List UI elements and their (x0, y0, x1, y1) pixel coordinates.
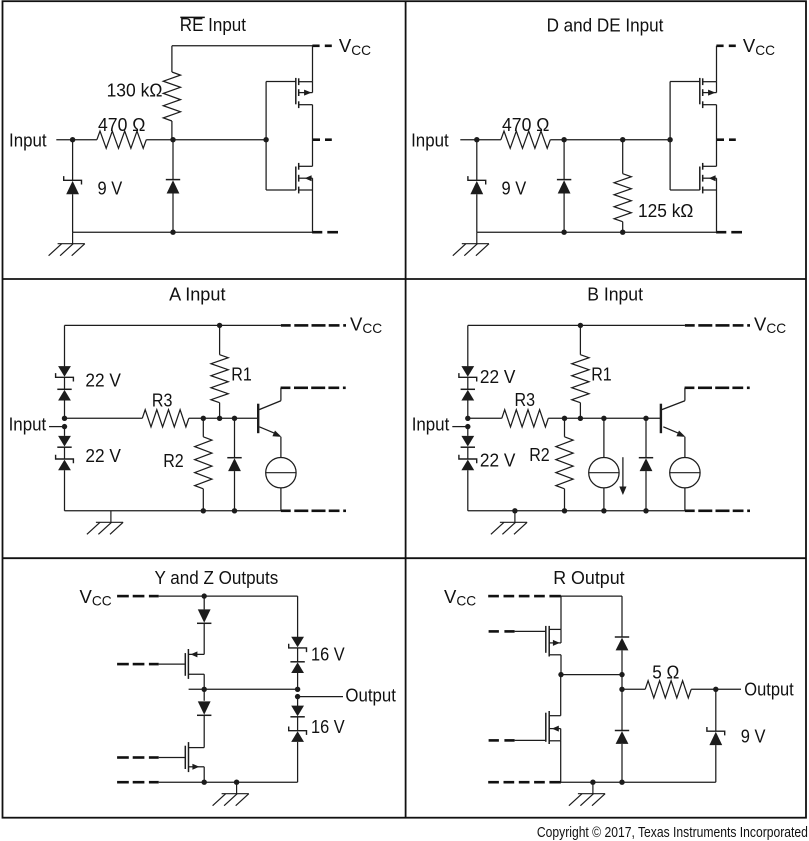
svg-text:22 V: 22 V (480, 451, 516, 471)
svg-text:R1: R1 (231, 365, 252, 385)
pmos drain to output node (panel 2) (716, 105, 718, 140)
current direction arrow (panel 4) (622, 457, 624, 487)
collector wire (panel 4) (662, 401, 685, 410)
node above clamp diode (panel 2) (561, 137, 566, 142)
VCC rail (panel 4) (468, 324, 685, 326)
current source I1 (panel 3) (266, 458, 296, 488)
input tap wire (panel 4) (452, 426, 468, 428)
resistor 5 Ohm (622, 688, 645, 690)
bottom rail (panel 6) (488, 781, 499, 784)
resistor 125 kOhm (622, 140, 624, 174)
bottom rail (panel 4) (468, 510, 685, 512)
output wire (panel 6) (716, 688, 741, 690)
emitter wire with arrow (panel 4) (663, 427, 680, 434)
collector dash rail (panel 4) (685, 386, 695, 389)
resistor R1 (panel 4) (579, 325, 581, 354)
left branch wire from VCC rail (panel 4) (467, 325, 469, 366)
wire 470-ohm output to node (146, 139, 173, 141)
VCC rail (panel 3) (65, 324, 281, 326)
emitter wire with arrow (panel 3) (259, 427, 276, 434)
collector dash rail (panel 3) (281, 386, 291, 389)
npn transistor Q (panel 4) (660, 404, 662, 434)
svg-text:125 kΩ: 125 kΩ (638, 201, 693, 221)
resistor 470 Ohm (panel 1) (97, 131, 146, 148)
upper mosfet M1 (panel 5) (184, 653, 186, 676)
svg-text:Input: Input (9, 131, 47, 151)
gate line M2 (panel 5) (117, 756, 129, 759)
svg-text:Y and Z Outputs: Y and Z Outputs (155, 568, 279, 588)
right column wire from VCC rail (panel 5) (297, 596, 299, 637)
diode D1 top (panel 5) (203, 596, 205, 609)
svg-text:RE Input: RE Input (180, 15, 246, 35)
svg-text:R2: R2 (529, 445, 550, 465)
upper 22 V zener pair (panel 3) (58, 366, 71, 377)
input wire (panel 2) (460, 139, 501, 141)
clamp diode (panel 4) (645, 418, 647, 457)
bottom rail (panel 1) (73, 231, 313, 233)
input node dots (panel 4) (465, 416, 470, 421)
M1 source to output node (panel 5) (203, 674, 205, 689)
output label tap (panel 5) (295, 694, 300, 699)
bottom rail (panel 5) (117, 781, 129, 784)
ground (panel 6) (569, 782, 605, 806)
lower 16 V zener pair (297, 697, 299, 707)
svg-text:22 V: 22 V (85, 370, 121, 390)
svg-text:Output: Output (744, 680, 793, 700)
svg-text:22 V: 22 V (85, 446, 121, 466)
resistor R2 (panel 3) (202, 418, 204, 437)
upper 22 V zener pair (panel 4) (461, 366, 474, 377)
zener diode 9 V (panel 6) (715, 689, 717, 731)
nmos source to bottom rail (312, 190, 314, 232)
wire to gate riser with taps (panel 2) (550, 139, 670, 141)
ground (panel 5) (213, 782, 249, 806)
svg-text:B Input: B Input (587, 285, 643, 305)
bottom rail (panel 2) (477, 231, 717, 233)
svg-text:5 Ω: 5 Ω (652, 662, 679, 682)
clamp diode (panel 3) (234, 418, 236, 457)
diode D4 (panel 6) (621, 689, 623, 730)
nmos drain from output node (panel 2) (716, 140, 718, 167)
svg-text:D and DE Input: D and DE Input (547, 15, 664, 35)
gate riser wire (panel 2) (669, 82, 671, 191)
ground (panel 2) (453, 232, 489, 256)
current source I2 (panel 4) (670, 458, 700, 488)
input node dots (panel 3) (62, 416, 67, 421)
resistor R3 (panel 3) (142, 410, 189, 427)
ground (panel 3) (87, 511, 123, 535)
column to 5-ohm node (panel 6) (621, 675, 623, 690)
VCC rail (panel 6) (488, 595, 499, 598)
ground (panel 1) (49, 232, 85, 256)
M3 drain to mid node (panel 6) (560, 655, 562, 675)
resistor R3 (panel 4) (502, 410, 549, 427)
svg-text:470 Ω: 470 Ω (98, 115, 145, 135)
svg-text:R3: R3 (152, 390, 173, 410)
svg-text:16 V: 16 V (311, 717, 345, 737)
svg-text:Output: Output (345, 686, 396, 706)
mid node wire (panel 6) (561, 674, 622, 676)
upper mosfet M3 (panel 6) (545, 626, 547, 653)
VCC rail (panel 1) (172, 45, 313, 47)
collector wire (panel 3) (259, 401, 281, 410)
zener diode 9 V (panel 2) (476, 140, 478, 181)
wire input to R3 (panel 3) (65, 417, 143, 419)
output junction line (panel 5) (189, 688, 298, 690)
pmos source rail from VCC (312, 46, 314, 82)
svg-text:Input: Input (9, 415, 47, 435)
pmos source rail from VCC (panel 2) (716, 46, 718, 82)
svg-text:9 V: 9 V (741, 726, 766, 746)
zener diode 9 V (panel 1) (72, 140, 74, 181)
npn transistor Q (panel 3) (257, 404, 259, 434)
diode D2 (panel 5) (203, 689, 205, 701)
lower 22 V zener pair (panel 4) (467, 427, 469, 436)
bottom rail (panel 3) (65, 510, 281, 512)
output node dashes (panel 2) (716, 138, 724, 141)
upper 16 V zener pair (291, 637, 304, 648)
clamp diode (panel 2) (563, 140, 565, 180)
svg-text:16 V: 16 V (311, 644, 345, 664)
M2 source to bottom rail (panel 5) (203, 767, 205, 782)
resistor 470 Ohm (panel 2) (501, 131, 550, 148)
pmos drain to output node (312, 105, 314, 140)
VCC rail (panel 5) (117, 595, 129, 598)
node at 130k/diode junction (170, 137, 175, 142)
svg-text:9 V: 9 V (502, 179, 527, 199)
VCC rail (panel 2) (716, 44, 723, 47)
lower mosfet M4 (panel 6) (545, 713, 547, 742)
wire node to gate riser (panel 1) (173, 139, 266, 141)
gate line M1 (panel 5) (117, 663, 129, 666)
output node (panel 6) (713, 687, 718, 692)
svg-text:R3: R3 (515, 390, 536, 410)
svg-text:22 V: 22 V (480, 367, 516, 387)
svg-text:R1: R1 (591, 365, 612, 385)
clamp diode (panel 1) (172, 140, 174, 180)
pmos transistor (panel 1) (295, 78, 297, 104)
gate line M3 (panel 6) (489, 630, 499, 633)
svg-text:130 kΩ: 130 kΩ (107, 80, 163, 100)
svg-text:Input: Input (412, 415, 450, 435)
ground (panel 4) (491, 511, 527, 535)
right column from VCC (panel 6) (621, 596, 623, 637)
input tap wire (panel 3) (49, 426, 65, 428)
gate riser wire (panel 1) (265, 82, 267, 191)
resistor R2 (panel 4) (564, 418, 566, 437)
svg-text:R Output: R Output (553, 568, 624, 588)
gate line M4 (panel 6) (489, 739, 499, 742)
wire input to R3 (panel 4) (468, 417, 502, 419)
lower 22 V zener pair (panel 3) (64, 427, 66, 436)
M3 rail ties (panel 6) (560, 596, 562, 629)
left branch wire from VCC rail (panel 3) (64, 325, 66, 366)
nmos transistor (panel 2) (699, 167, 701, 191)
wire R3 to base (panel 3) (189, 417, 257, 419)
resistor R1 (panel 3) (219, 325, 221, 354)
input wire (panel 1) (56, 139, 97, 141)
bottom rail node below diode (170, 230, 175, 235)
svg-text:A Input: A Input (169, 285, 225, 305)
lower mosfet M2 (panel 5) (184, 746, 186, 769)
wire R3 to base (panel 4) (548, 417, 660, 419)
nmos drain from output node (312, 140, 314, 167)
nmos source to bottom rail (panel 2) (716, 190, 718, 232)
svg-text:Input: Input (411, 131, 449, 151)
svg-text:9 V: 9 V (98, 179, 123, 199)
node above 125k (panel 2) (620, 137, 625, 142)
M4 source to bottom rail (panel 6) (560, 741, 562, 782)
input node (panel 2) (474, 137, 479, 142)
svg-text:470 Ω: 470 Ω (502, 115, 549, 135)
M4 drain from mid node (panel 6) (560, 675, 562, 716)
current source I1 (panel 4) (603, 418, 605, 457)
input node (panel 1) (70, 137, 75, 142)
diode D3 (panel 6) (615, 636, 629, 638)
svg-text:Copyright © 2017, Texas Instru: Copyright © 2017, Texas Instruments Inco… (537, 825, 808, 841)
pmos transistor (panel 2) (699, 78, 701, 104)
svg-text:R2: R2 (163, 451, 184, 471)
resistor 130 kOhm (171, 46, 173, 72)
nmos transistor (panel 1) (295, 167, 297, 191)
output node dashes (panel 1) (312, 138, 320, 141)
